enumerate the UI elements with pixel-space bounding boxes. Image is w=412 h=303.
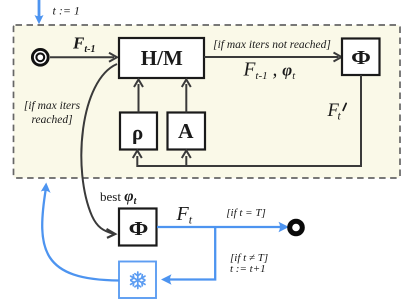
wire Phi feedback to rho and A (133, 75, 361, 166)
svg-text:[if max iters: [if max iters (24, 100, 81, 112)
start node (double circle) (32, 49, 48, 65)
wire blue snowflake loop back up (41, 183, 119, 281)
svg-text:Φ: Φ (351, 46, 371, 69)
wire blue branch down to snowflake (161, 227, 215, 285)
svg-text:best φt: best φt (100, 188, 138, 207)
svg-text:t := 1: t := 1 (53, 4, 80, 18)
svg-text:Φ: Φ (129, 217, 149, 240)
wire blue Phi to end node (157, 222, 289, 232)
wire H/M to Phi (204, 53, 342, 62)
svg-text:t := t+1: t := t+1 (230, 263, 266, 275)
box snowflake (frozen) (119, 262, 156, 299)
svg-text:A: A (178, 119, 194, 143)
wire start to H/M (50, 53, 117, 62)
wire blue init arrow t:=1 (35, 0, 44, 24)
wire feedback branch to A (182, 151, 191, 167)
wire A to H/M (182, 80, 191, 113)
end node (290, 221, 303, 234)
box H/M U1 (119, 38, 204, 78)
svg-text:H/M: H/M (141, 46, 183, 70)
svg-text:[if t = T]: [if t = T] (226, 207, 266, 219)
wire rho to H/M (134, 80, 143, 113)
svg-text:Ft: Ft (176, 203, 193, 227)
dashed container box (14, 25, 401, 178)
svg-text:ρ: ρ (132, 120, 143, 144)
wire curved [if max iters reached] H/M to best Phi (81, 64, 117, 238)
box best Phi (119, 209, 157, 246)
snowflake icon (131, 272, 145, 289)
box A (168, 113, 206, 150)
box rho (120, 113, 157, 150)
box Phi (inner) (342, 39, 380, 76)
svg-text:reached]: reached] (31, 114, 72, 126)
svg-text:Ft-1 , φt: Ft-1 , φt (243, 60, 297, 83)
svg-text:[if max iters not reached]: [if max iters not reached] (213, 39, 331, 51)
